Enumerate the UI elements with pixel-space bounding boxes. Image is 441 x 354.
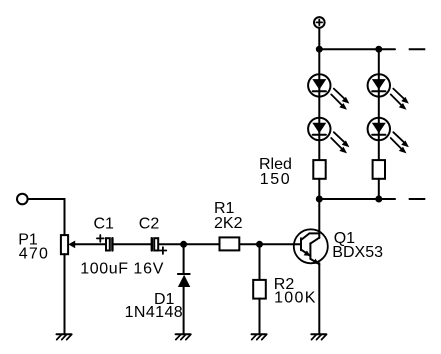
svg-text:C1: C1 [94,215,115,232]
wire emitter [318,263,320,334]
ground R2 [252,334,267,339]
svg-text:470: 470 [19,246,49,263]
diode D1 [178,274,190,287]
svg-text:1N4148: 1N4148 [125,304,183,321]
resistor R2 [253,280,266,299]
ground Q1 emitter [311,334,326,339]
top bus wire [319,48,395,50]
wire supply to top bus [318,29,320,50]
svg-text:2K2: 2K2 [214,215,243,232]
wire input to P1 [28,199,64,235]
svg-text:C2: C2 [139,215,160,232]
LED 1a [308,74,349,110]
capacitor C2 [152,238,167,254]
junction top bus / string 2 [376,47,381,52]
junction node C2 / D1 / R1 [181,242,186,247]
wire D1 top [183,244,185,274]
continuation dash top [409,48,426,50]
resistor Rled #1 [313,160,325,179]
svg-text:BDX53: BDX53 [332,244,383,261]
wire LED string 1 [318,49,320,160]
capacitor C1 [97,235,113,251]
wire base (R1 to Q1) [239,243,300,245]
LED 2b [368,118,409,154]
junction top bus / string 1 [317,47,322,52]
potentiometer P1 [61,235,75,254]
wire P1 to ground [64,254,66,334]
wire collector [318,199,320,238]
svg-text:100K: 100K [274,290,317,307]
LED 1b [308,118,349,154]
LED 2a [368,74,409,110]
supply terminal + [314,17,325,28]
continuation dash bottom [409,198,426,200]
bottom bus wire [319,198,395,200]
junction bottom bus / string 1 [317,197,322,202]
input terminal [17,194,28,205]
junction node base / R2 [257,242,262,247]
svg-text:16V: 16V [133,260,164,277]
junction bottom bus / string 2 [376,197,381,202]
wire C2 to R1 [158,243,219,245]
svg-text:100uF: 100uF [80,260,128,277]
transistor Q1 [294,229,328,264]
wire C1 to C2 [113,243,152,245]
ground P1 [57,334,72,339]
wire Rled2 to bottom bus [378,179,380,199]
resistor R1 [220,237,240,250]
ground D1 [176,334,191,339]
wire Rled1 to bottom bus [318,179,320,199]
wire LED string 2 [378,49,380,160]
wire D1 to ground [183,287,185,334]
resistor Rled #2 [373,160,385,179]
wire wiper to C1 [74,243,106,245]
svg-text:150: 150 [260,171,292,188]
wire R2 to ground [259,299,261,334]
wire R2 top [259,244,261,280]
